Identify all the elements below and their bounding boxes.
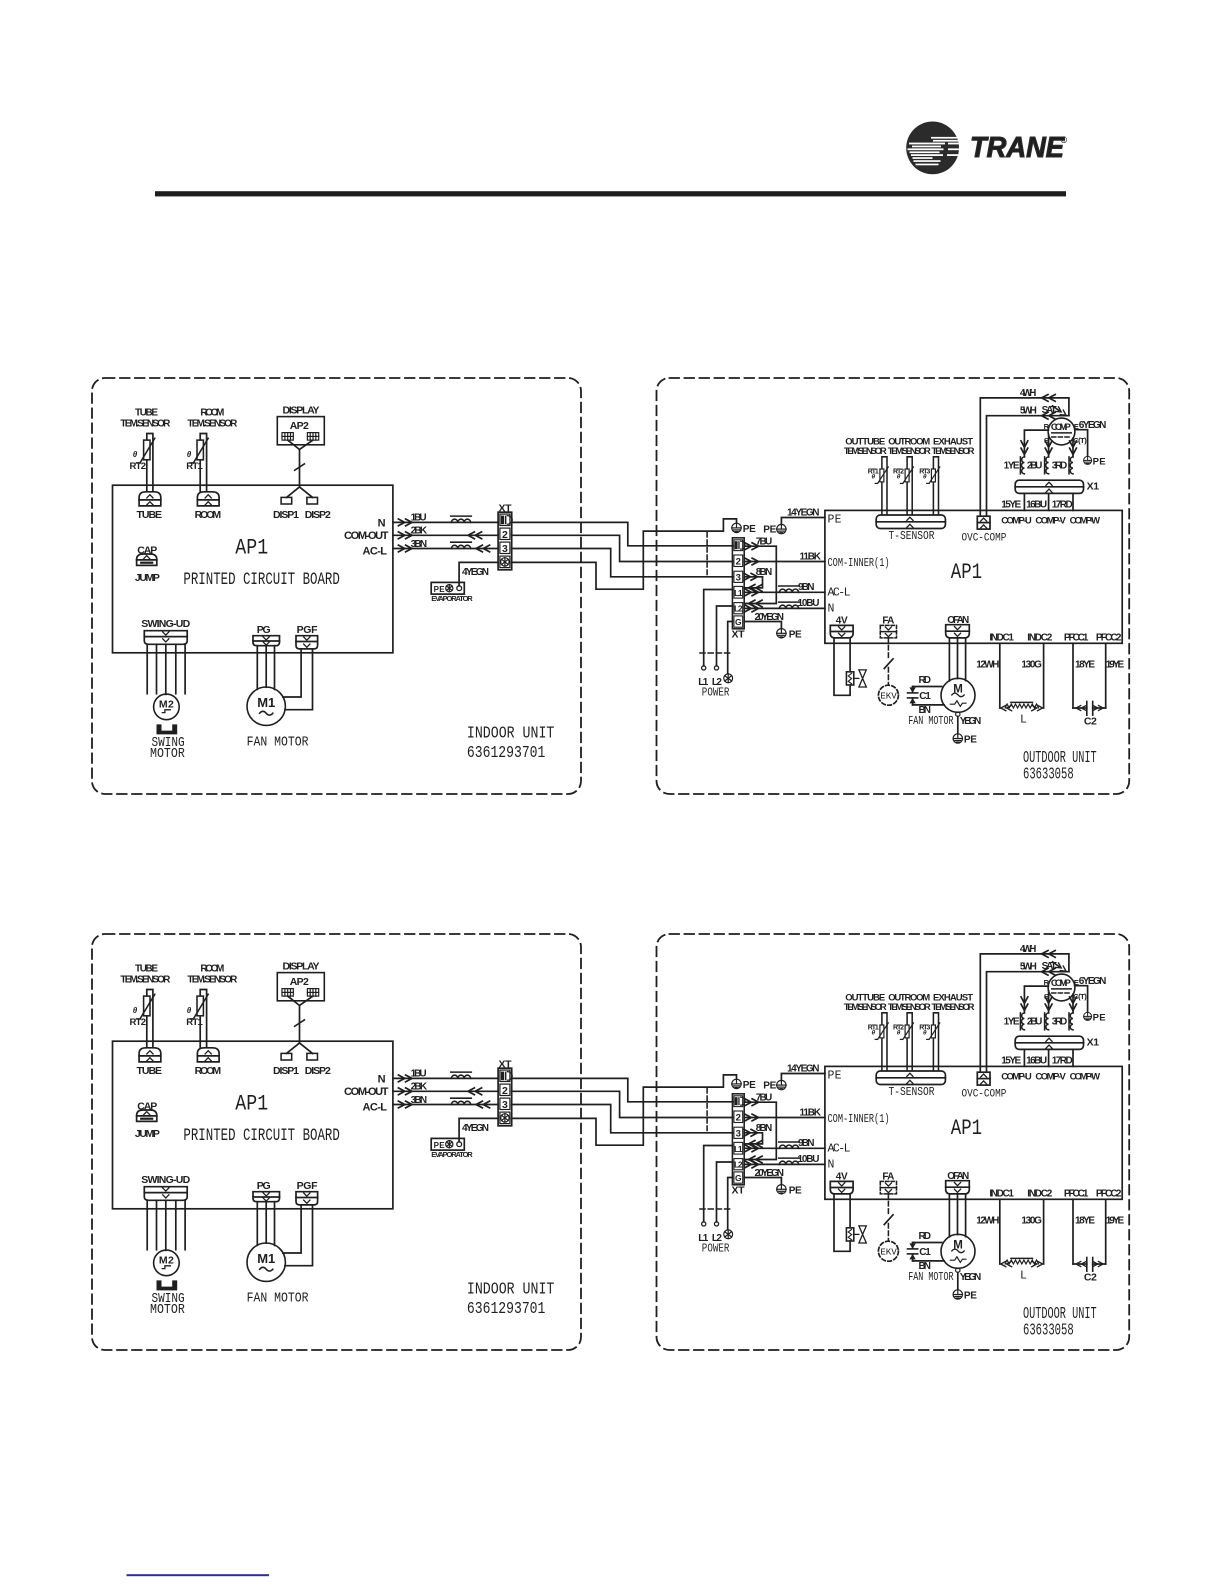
ground PE (outdoor XT G)	[777, 629, 786, 639]
svg-text:19YE: 19YE	[1106, 660, 1125, 671]
svg-text:INDC2: INDC2	[1027, 632, 1052, 643]
svg-text:DISPLAY: DISPLAY	[283, 405, 320, 417]
thermistor RT1 (outdoor)	[875, 467, 888, 484]
svg-text:130G: 130G	[1021, 660, 1042, 671]
svg-text:PFCC2: PFCC2	[1096, 632, 1122, 643]
svg-text:2BK: 2BK	[411, 526, 428, 537]
svg-text:COMP-W: COMP-W	[1070, 516, 1101, 527]
svg-text:FAN MOTOR: FAN MOTOR	[908, 715, 953, 729]
svg-text:AP2: AP2	[290, 420, 309, 432]
thermistor RT2	[137, 438, 155, 463]
svg-text:3: 3	[502, 543, 508, 555]
wire C(T) to winding 3	[1072, 438, 1074, 457]
evaporator earth plate	[431, 582, 464, 594]
svg-text:RD: RD	[919, 675, 932, 686]
svg-text:COM-INNER(1): COM-INNER(1)	[828, 557, 890, 571]
svg-text:OVC-COMP: OVC-COMP	[962, 533, 1007, 545]
AP2 connector glyph 2	[307, 433, 318, 441]
XT ground terminal	[501, 558, 509, 566]
svg-text:PFCC1: PFCC1	[1064, 632, 1089, 643]
sensor RT1 leads (outtube)	[882, 457, 887, 515]
dashed wire to EKV	[887, 638, 889, 660]
thermal switch SAT	[1053, 406, 1060, 411]
wire 13OG	[1043, 643, 1045, 708]
terminal block XT (indoor)	[498, 512, 512, 570]
svg-text:TEM.SENSOR: TEM.SENSOR	[844, 446, 887, 457]
connector 4V	[830, 625, 853, 638]
svg-text:TRANE: TRANE	[970, 132, 1065, 164]
svg-text:DISP1: DISP1	[273, 509, 299, 521]
swing louver icon	[157, 724, 178, 734]
svg-text:AC-L: AC-L	[363, 545, 388, 557]
svg-text:COMP: COMP	[1051, 422, 1072, 433]
swing motor harness (5 conductors)	[147, 644, 185, 694]
wire 14YEGN (PE to board)	[781, 518, 825, 525]
AP1 outdoor control board outline	[825, 510, 1122, 643]
wire RD	[913, 686, 942, 688]
svg-text:DISP2: DISP2	[305, 509, 331, 521]
winding 3RD	[1069, 457, 1073, 474]
svg-text:COM-OUT: COM-OUT	[344, 530, 389, 542]
wire R to winding 1	[1024, 430, 1048, 457]
svg-text:9BN: 9BN	[798, 582, 815, 593]
PGF harness wires	[283, 649, 301, 697]
svg-text:TUBE: TUBE	[137, 509, 163, 521]
capacitor C1	[908, 687, 918, 705]
winding 1YE	[1020, 457, 1024, 474]
connector PGF	[296, 636, 318, 649]
svg-text:TEM.SENSOR: TEM.SENSOR	[187, 419, 238, 430]
wire 9BN (XT:L1 to AC-L)	[744, 591, 825, 593]
svg-text:PGF: PGF	[297, 624, 319, 636]
motor M (outdoor fan)	[941, 678, 975, 712]
fan motor harness (outdoor)	[949, 638, 965, 681]
jumper 7BU (XT:1 to XT:L2)	[744, 546, 776, 603]
svg-text:AP1: AP1	[235, 536, 268, 561]
jumper 8BN (XT:3 to XT:L1)	[744, 577, 762, 588]
svg-text:PE: PE	[763, 525, 776, 536]
ground PE (fan motor)	[953, 734, 962, 744]
svg-text:θ: θ	[187, 450, 192, 459]
svg-text:10BU: 10BU	[798, 598, 820, 609]
svg-text:INDOOR UNIT: INDOOR UNIT	[467, 723, 554, 743]
indoor unit dashed enclosure	[92, 378, 581, 794]
svg-text:®: ®	[1061, 135, 1068, 145]
svg-text:20YEGN: 20YEGN	[755, 612, 785, 623]
svg-text:TEM.SENSOR: TEM.SENSOR	[120, 419, 171, 430]
wire S to winding 2	[1048, 435, 1050, 457]
svg-text:AP1: AP1	[951, 559, 982, 585]
svg-text:TEM.SENSOR: TEM.SENSOR	[888, 446, 931, 457]
svg-text:RT3: RT3	[919, 468, 930, 475]
svg-text:PE: PE	[789, 629, 802, 640]
svg-text:PG: PG	[257, 624, 271, 636]
svg-text:G: G	[735, 617, 742, 627]
outdoor unit dashed enclosure	[657, 378, 1130, 794]
wire 10BU (XT:L2 to N)	[744, 607, 825, 609]
wire BN	[913, 704, 945, 706]
power feed L2	[717, 606, 733, 666]
svg-text:3BN: 3BN	[411, 539, 428, 550]
power feed ground	[728, 622, 733, 673]
valve body	[854, 677, 859, 679]
wire 4WH	[980, 398, 1069, 516]
connector ROOM	[197, 492, 219, 506]
svg-text:YEGN: YEGN	[960, 716, 982, 727]
display harness wire	[287, 440, 314, 497]
ground PE (board earth)	[777, 524, 786, 534]
svg-text:15YE: 15YE	[1001, 500, 1021, 511]
svg-text:PE: PE	[1093, 456, 1106, 467]
terminal strip X1	[1015, 480, 1083, 493]
wire 5WH	[987, 416, 1069, 517]
sensor RT2 leads (outroom)	[907, 457, 912, 515]
connector SWING-UD	[144, 631, 187, 645]
terminal block XT (outdoor)	[732, 538, 744, 629]
svg-text:PRINTED CIRCUIT BOARD: PRINTED CIRCUIT BOARD	[183, 569, 339, 590]
svg-text:3: 3	[736, 572, 741, 583]
winding 2BU	[1045, 457, 1049, 474]
svg-text:PE: PE	[743, 524, 756, 535]
interconnect wire 3 (indoor XT:3 to outdoor XT:3)	[512, 549, 733, 577]
svg-text:17RD: 17RD	[1052, 500, 1073, 511]
svg-text:INDC1: INDC1	[989, 632, 1014, 643]
thermistor RT1	[190, 438, 208, 463]
wire 12WH	[999, 643, 1001, 708]
thermistor RT2 (outdoor)	[900, 467, 913, 484]
power earth symbol	[724, 674, 733, 683]
svg-text:PE: PE	[434, 585, 446, 594]
wire 4YEGN (ground to evaporator)	[459, 562, 498, 585]
motor M1 (fan)	[247, 687, 285, 725]
svg-text:EVAPORATOR: EVAPORATOR	[431, 594, 473, 603]
connector FA (optional, dashed)	[880, 625, 896, 638]
header rule	[155, 191, 1066, 196]
wires X1 to board	[1024, 493, 1073, 510]
svg-text:TUBE: TUBE	[135, 408, 158, 419]
svg-text:5WH: 5WH	[1020, 406, 1037, 417]
ground PE (interconnect)	[732, 523, 741, 533]
svg-text:63633058: 63633058	[1023, 765, 1074, 784]
svg-text:X1: X1	[1087, 481, 1100, 493]
svg-text:M1: M1	[257, 695, 275, 710]
svg-text:MOTOR: MOTOR	[150, 746, 185, 761]
svg-text:T-SENSOR: T-SENSOR	[889, 530, 935, 543]
sensor RT2 leads	[147, 434, 153, 492]
svg-text:PE: PE	[964, 735, 977, 746]
sensor RT3 leads (exhaust)	[933, 457, 938, 515]
svg-text:18YE: 18YE	[1075, 660, 1095, 671]
Trane logo disc	[906, 121, 1067, 174]
DISP2 terminal lug	[307, 497, 318, 504]
connector OVC-COMP	[977, 516, 990, 529]
wire 11BK (XT:2 to COM-INNER)	[744, 561, 825, 563]
svg-text:COMP-U: COMP-U	[1001, 516, 1032, 527]
wire 20YEGN (XT:G to PE)	[744, 622, 781, 629]
motor earth lead	[956, 712, 960, 716]
wire 18YE	[1072, 643, 1074, 708]
thermistor RT3 (outdoor)	[927, 467, 940, 484]
svg-text:7BU: 7BU	[756, 537, 773, 548]
svg-text:11BK: 11BK	[800, 552, 822, 563]
svg-text:L2: L2	[734, 604, 743, 614]
connector TUBE	[139, 492, 161, 506]
outdoor XT terminal 1 (N) mark	[735, 541, 745, 549]
svg-text:3RD: 3RD	[1052, 461, 1068, 472]
sensor RT1 leads	[200, 434, 206, 492]
filter inductor on N wire	[451, 516, 472, 522]
svg-text:θ: θ	[133, 450, 138, 459]
svg-text:6361293701: 6361293701	[467, 742, 545, 762]
wire AC-L / 3BN	[393, 548, 498, 550]
interconnect wire 2 (indoor XT:2 to outdoor XT:2)	[512, 535, 733, 561]
svg-text:RT2: RT2	[893, 468, 904, 475]
interconnect ground wire (indoor XT:earth to outdoor PE)	[512, 519, 737, 589]
svg-text:AC-L: AC-L	[828, 586, 851, 599]
footer rule (blue)	[127, 1574, 270, 1576]
wire COM-OUT / 2BK	[393, 534, 498, 536]
svg-text:14YEGN: 14YEGN	[787, 508, 820, 519]
filter inductor on AC-L wire	[451, 542, 472, 548]
connector T-SENSOR	[876, 515, 945, 529]
svg-text:L1: L1	[734, 588, 743, 598]
electronic expansion valve EKV	[878, 685, 898, 705]
svg-text:2BU: 2BU	[1027, 461, 1043, 472]
compressor COMP	[1048, 418, 1075, 445]
display board AP2	[277, 417, 324, 445]
svg-text:JUMP: JUMP	[135, 572, 160, 584]
AP1 printed circuit board outline	[113, 485, 393, 653]
motor M2 (swing)	[154, 694, 180, 720]
capacitor C2	[1073, 707, 1087, 709]
svg-text:1YE: 1YE	[1004, 461, 1020, 472]
power feed L1	[704, 590, 733, 666]
svg-text:FAN MOTOR: FAN MOTOR	[247, 735, 309, 750]
svg-text:RT1: RT1	[868, 468, 879, 475]
svg-text:POWER: POWER	[702, 686, 730, 699]
svg-text:PE: PE	[828, 514, 842, 527]
fan motor harness (3 conductors)	[257, 646, 274, 690]
XT terminal 1 (N) mark	[501, 516, 512, 525]
svg-text:4YEGN: 4YEGN	[462, 567, 489, 578]
svg-text:8BN: 8BN	[756, 567, 773, 578]
svg-text:ROOM: ROOM	[195, 509, 222, 521]
svg-text:XT: XT	[732, 628, 746, 640]
power cable dashed tie	[700, 652, 730, 654]
ground PE (compressor)	[1084, 456, 1092, 464]
DISP1 terminal lug	[281, 497, 292, 504]
connector OFAN	[946, 625, 970, 638]
svg-text:2: 2	[502, 529, 508, 541]
cable-bundle dashed tie	[706, 533, 708, 578]
svg-text:16BU: 16BU	[1026, 500, 1047, 511]
svg-text:RT1: RT1	[186, 461, 203, 472]
svg-text:L: L	[1020, 714, 1027, 727]
svg-text:TEM.SENSOR: TEM.SENSOR	[932, 446, 975, 457]
svg-text:C1: C1	[919, 691, 931, 702]
switch contact	[884, 659, 893, 669]
wire E to PE	[1075, 430, 1088, 456]
svg-text:ROOM: ROOM	[200, 408, 224, 419]
svg-text:N: N	[828, 603, 835, 616]
svg-text:RT2: RT2	[130, 461, 147, 472]
4-way valve solenoid 4V	[846, 672, 853, 685]
wire N / 1BU	[393, 521, 498, 523]
connector PG	[253, 636, 280, 646]
svg-text:SWING-UD: SWING-UD	[141, 618, 190, 630]
svg-text:C2: C2	[1084, 715, 1097, 727]
svg-text:12WH: 12WH	[976, 660, 999, 671]
svg-text:4WH: 4WH	[1020, 388, 1037, 399]
inductor L	[1001, 705, 1012, 710]
svg-text:1BU: 1BU	[411, 513, 427, 524]
interconnect wire 1 (indoor XT:1 to outdoor XT:1)	[512, 522, 733, 545]
4-way valve coil loop	[834, 638, 850, 695]
wire 19YE	[1105, 643, 1107, 708]
svg-text:M2: M2	[159, 699, 174, 711]
svg-text:N: N	[378, 517, 386, 529]
svg-text:COMP-V: COMP-V	[1035, 516, 1066, 527]
cable slash mark	[295, 464, 305, 470]
AP2 connector glyph 1	[282, 433, 293, 441]
svg-text:EKV: EKV	[880, 690, 897, 701]
svg-text:2: 2	[736, 556, 741, 567]
connector JUMP	[137, 554, 157, 565]
